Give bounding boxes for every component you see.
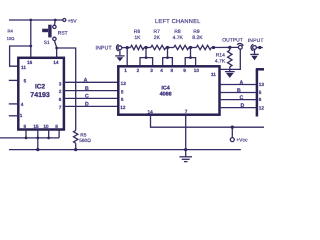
svg-text:5: 5 (121, 90, 124, 95)
svg-text:A: A (240, 80, 244, 86)
svg-text:5: 5 (259, 90, 262, 95)
svg-text:D: D (241, 103, 245, 109)
svg-text:D: D (85, 102, 89, 108)
wire branch to pin 11 (10, 46, 31, 66)
resistor R7 2K (151, 45, 166, 49)
wire switch top stem (54, 20, 57, 25)
+5V terminal (63, 19, 66, 22)
svg-text:B: B (85, 86, 89, 92)
svg-text:4: 4 (160, 68, 163, 73)
svg-text:4066: 4066 (160, 91, 172, 97)
svg-text:R5: R5 (80, 133, 86, 139)
svg-text:11: 11 (211, 72, 216, 77)
resistor R9 8.2K (196, 45, 211, 49)
wire C (64, 97, 118, 99)
svg-text:7: 7 (185, 109, 188, 114)
svg-text:3: 3 (59, 81, 62, 86)
wire jack to pin 1 (126, 48, 128, 67)
wire pin 15 stub (37, 130, 39, 138)
wire to output (211, 46, 238, 48)
wire D (64, 105, 118, 107)
svg-text:12: 12 (259, 105, 264, 110)
svg-text:13: 13 (259, 82, 264, 87)
output jack (237, 43, 243, 45)
svg-text:IC2: IC2 (35, 83, 46, 90)
svg-text:7: 7 (59, 105, 62, 110)
svg-text:4: 4 (21, 102, 24, 107)
wire pin 7 to ground (185, 115, 187, 157)
svg-text:6: 6 (59, 97, 62, 102)
svg-text:13: 13 (121, 81, 127, 86)
ground (179, 156, 192, 158)
wire pin 14 to Vcc line (151, 115, 265, 127)
svg-text:6: 6 (121, 97, 124, 102)
wire output jack to pin 11 (220, 49, 241, 69)
wire (189, 47, 197, 49)
svg-text:LEFT CHANNEL: LEFT CHANNEL (155, 19, 201, 25)
svg-text:OUTPUT: OUTPUT (222, 37, 243, 43)
svg-text:8: 8 (55, 124, 58, 129)
wire switch bottom to pin 14 (54, 41, 56, 58)
wire B (64, 90, 118, 92)
svg-text:12: 12 (120, 105, 126, 110)
node rail junction at switch (54, 19, 57, 22)
node rail junction (29, 19, 32, 22)
wire pin 8 stub (58, 130, 60, 138)
svg-text:C: C (85, 94, 89, 100)
svg-text:9: 9 (183, 68, 186, 73)
svg-text:+5V: +5V (68, 18, 78, 24)
svg-text:560Ω: 560Ω (79, 138, 91, 144)
wire branch right (57, 48, 76, 131)
svg-text:8.2K: 8.2K (192, 35, 203, 41)
svg-text:9: 9 (24, 124, 27, 129)
svg-text:11: 11 (21, 65, 26, 70)
resistor R5 560 (74, 131, 78, 144)
svg-text:1: 1 (124, 68, 127, 73)
svg-text:R9: R9 (193, 29, 200, 35)
svg-text:+Vcc: +Vcc (236, 138, 248, 144)
svg-text:R6: R6 (134, 29, 141, 35)
svg-text:1K: 1K (134, 35, 141, 41)
wire pin16 drop (30, 20, 32, 58)
ground under right jack (254, 49, 256, 54)
switch S1 contact bottom (53, 37, 56, 40)
wire C right (220, 99, 256, 101)
wire pin 9 stub (25, 130, 27, 138)
svg-text:16: 16 (27, 60, 33, 65)
resistor R6 1K (131, 45, 145, 49)
svg-text:4.7K: 4.7K (173, 35, 184, 41)
resistor R8 4.7K (174, 45, 189, 49)
wire (166, 47, 174, 49)
IC5 left edge (256, 69, 259, 116)
wire drop to rail (37, 138, 39, 150)
svg-text:R7: R7 (154, 29, 161, 35)
+Vcc terminal (231, 127, 233, 137)
wire pin 10 stub (48, 130, 50, 138)
wire ladder tap 2 (167, 48, 169, 58)
svg-text:C: C (240, 95, 244, 101)
svg-text:R8: R8 (174, 29, 181, 35)
wire A right (220, 84, 256, 86)
ground under R14 (225, 71, 235, 73)
wire pin 4 stub (9, 103, 18, 105)
wire bottom bus (0, 137, 59, 139)
svg-text:10: 10 (43, 124, 49, 129)
svg-text:5: 5 (24, 78, 27, 83)
svg-text:10: 10 (194, 68, 200, 73)
svg-text:1: 1 (20, 113, 23, 118)
svg-text:15: 15 (33, 124, 39, 129)
svg-text:R4: R4 (8, 29, 14, 34)
switch S1 contact top (53, 25, 56, 28)
input jack right (251, 44, 253, 50)
wire (144, 47, 151, 49)
svg-text:A: A (84, 78, 88, 84)
svg-text:2K: 2K (154, 35, 161, 41)
ground under input jack (119, 50, 121, 56)
svg-text:S1: S1 (44, 40, 50, 46)
wire D right (220, 107, 256, 109)
svg-text:INPUT: INPUT (96, 45, 113, 51)
svg-text:8: 8 (171, 68, 174, 73)
svg-text:74193: 74193 (30, 92, 50, 99)
wire pin 5 stub (9, 79, 18, 81)
wire ladder tap 1 (145, 48, 147, 58)
node junction (29, 45, 32, 48)
svg-text:6: 6 (259, 97, 262, 102)
svg-text:INPUT: INPUT (248, 38, 264, 44)
svg-text:RST: RST (58, 30, 68, 36)
IC4 4066 (118, 66, 219, 114)
wire +5V rail (9, 19, 63, 21)
resistor R14 4.7K (229, 47, 231, 50)
switch S1 plunger (48, 25, 51, 38)
wire B right (220, 92, 256, 94)
svg-text:4.7K: 4.7K (215, 59, 226, 65)
svg-text:B: B (237, 88, 241, 94)
wire ground rail (9, 149, 241, 151)
wire A (64, 81, 118, 83)
svg-text:2: 2 (137, 68, 140, 73)
svg-text:2: 2 (59, 89, 62, 94)
IC2 74193 (18, 58, 64, 130)
svg-text:10Ω: 10Ω (7, 36, 15, 41)
wire ladder tap 3 (190, 48, 192, 58)
wire pin 1 stub (9, 115, 18, 117)
node junction (55, 47, 58, 50)
svg-text:3: 3 (150, 68, 153, 73)
svg-text:14: 14 (148, 109, 154, 114)
svg-text:14: 14 (53, 60, 59, 65)
